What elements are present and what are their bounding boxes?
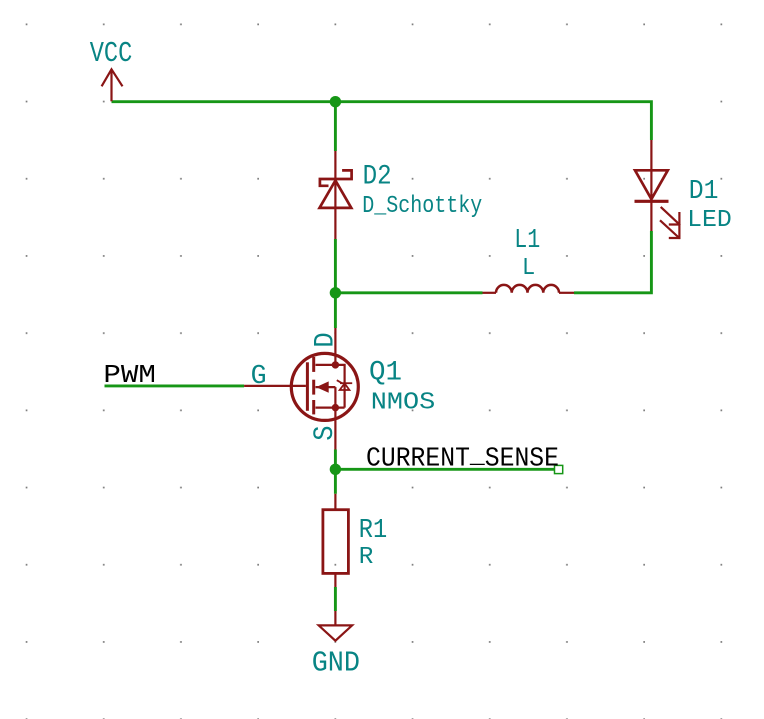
svg-text:G: G	[251, 361, 267, 391]
transistor Q1 gate pin	[244, 385, 306, 387]
junction at D2 anode	[330, 287, 341, 298]
svg-text:NMOS: NMOS	[371, 389, 436, 416]
transistor Q1 bulk arrow	[316, 387, 336, 408]
svg-text:R1: R1	[359, 515, 387, 545]
transistor Q1 drain	[316, 328, 336, 365]
svg-text:D: D	[310, 332, 341, 347]
power symbol VCC	[102, 69, 123, 101]
svg-text:S: S	[310, 425, 341, 440]
wire junction to Q1 drain	[334, 293, 337, 328]
LED arrow 2	[660, 220, 680, 238]
resistor R1 pins	[334, 494, 336, 587]
svg-text:VCC: VCC	[90, 37, 133, 70]
transistor Q1 source	[316, 408, 345, 450]
wire inductor left to junction	[335, 291, 482, 294]
svg-text:GND: GND	[312, 646, 360, 679]
svg-text:L1: L1	[514, 225, 540, 255]
LED arrow 1	[661, 207, 680, 225]
resistor R1 body	[323, 510, 349, 574]
svg-text:LED: LED	[687, 207, 732, 234]
junction at VCC rail	[330, 96, 341, 107]
wire R1 bottom	[334, 587, 337, 611]
inductor L1 body	[496, 285, 559, 293]
transistor Q1 circle	[291, 353, 358, 420]
svg-text:D_Schottky: D_Schottky	[362, 193, 482, 220]
wire PWM to gate	[105, 384, 245, 387]
diode D2 pins	[334, 151, 336, 239]
inductor L1 pins	[483, 292, 575, 294]
svg-text:L: L	[522, 255, 535, 282]
svg-text:R: R	[359, 544, 374, 571]
diode D2 D_Schottky body	[320, 170, 352, 208]
wire D2 bottom to junction	[334, 239, 337, 293]
transistor Q1 gate structure	[307, 357, 313, 414]
svg-text:D1: D1	[689, 176, 719, 206]
transistor Q1 body diode	[337, 380, 352, 390]
transistor Q1 body diode branch	[335, 365, 344, 408]
wire Q1 source down	[334, 450, 337, 494]
wire VCC rail top	[112, 102, 652, 140]
junction at source	[330, 464, 341, 475]
wire CURRENT_SENSE	[335, 468, 554, 471]
svg-text:CURRENT_SENSE: CURRENT_SENSE	[366, 441, 559, 475]
wire LED bottom to inductor	[574, 231, 651, 293]
svg-text:PWM: PWM	[103, 360, 155, 390]
svg-text:Q1: Q1	[369, 357, 402, 388]
ground symbol	[319, 611, 352, 641]
diode D1 pins	[650, 140, 652, 231]
svg-text:D2: D2	[363, 162, 392, 193]
unconnected end square	[555, 465, 563, 473]
diode D1 LED body	[635, 170, 669, 201]
wire D2 top	[334, 102, 337, 151]
